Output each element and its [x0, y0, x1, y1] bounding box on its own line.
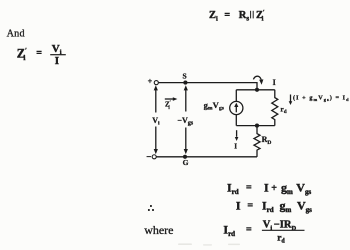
svg-text:Vi: Vi — [152, 116, 160, 127]
svg-text:−Vgs: −Vgs — [177, 116, 193, 127]
svg-text:where: where — [144, 223, 173, 237]
svg-text:I: I — [236, 199, 241, 213]
svg-text:−: − — [146, 152, 151, 162]
svg-text:=: = — [224, 10, 230, 21]
svg-text:Z′i: Z′i — [17, 47, 27, 63]
svg-text:G: G — [183, 158, 189, 167]
svg-text:=: = — [246, 183, 252, 194]
svg-text:Z′i: Z′i — [165, 100, 171, 111]
svg-text:=: = — [246, 224, 252, 235]
svg-text:I: I — [55, 55, 59, 67]
svg-text:rd: rd — [280, 104, 286, 115]
svg-text:RD: RD — [262, 135, 272, 146]
svg-text:=: = — [36, 48, 42, 59]
svg-text:I: I — [273, 78, 276, 87]
svg-text:gm: gm — [281, 181, 293, 196]
svg-text:Rs: Rs — [239, 10, 250, 22]
svg-text:+: + — [148, 77, 153, 86]
svg-text:+: + — [271, 183, 277, 194]
svg-text:gmVgs: gmVgs — [204, 100, 224, 112]
svg-text:Z′i: Z′i — [256, 10, 265, 23]
svg-text:(I + gmVgs) = Id: (I + gmVgs) = Id — [293, 95, 350, 102]
svg-text:∴: ∴ — [148, 203, 154, 214]
svg-text:I: I — [234, 143, 237, 151]
svg-text:=: = — [247, 201, 253, 212]
svg-text:Zi: Zi — [209, 10, 218, 22]
svg-text:Vgs: Vgs — [297, 199, 312, 214]
svg-text:Ird: Ird — [227, 181, 239, 196]
svg-text:Ird: Ird — [223, 223, 235, 238]
svg-text:I: I — [264, 181, 269, 195]
svg-text:Vgs: Vgs — [296, 181, 311, 196]
svg-text:Vi: Vi — [52, 43, 62, 56]
svg-text:rd: rd — [277, 233, 285, 244]
svg-text:And: And — [7, 28, 25, 39]
svg-text:Ird: Ird — [262, 199, 274, 214]
svg-text:S: S — [183, 72, 187, 81]
svg-text:gm: gm — [280, 199, 292, 214]
